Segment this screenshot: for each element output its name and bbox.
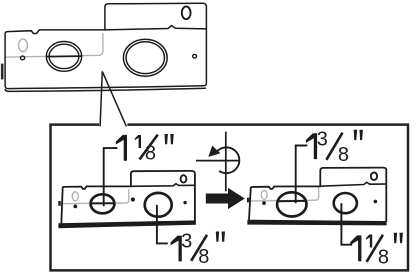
right mini bracket: bottom band — [247, 220, 386, 226]
label 2: 1-3/8 inch — [171, 230, 225, 267]
left mini bracket: bottom band — [58, 220, 196, 228]
left mini bracket: outline — [61, 171, 195, 225]
label 4: 1-1/8 inch — [350, 233, 403, 269]
top bracket: bend line with chevron — [105, 26, 206, 30]
callout box border (gap at top for triangle) — [51, 125, 409, 271]
leader line label 1 (1-1/8 left top) — [104, 148, 118, 206]
leader line label 2 (1-3/8 left bottom) — [157, 205, 168, 244]
label 3: 1-3/8 inch — [306, 128, 363, 166]
rotate icon: cross lines — [196, 132, 240, 192]
right mini bracket: gray oval — [261, 191, 267, 200]
svg-text:8: 8 — [145, 142, 156, 164]
top bracket: left end tab — [1, 64, 4, 80]
left mini bracket: small hole 1-1/8 — [91, 194, 115, 213]
right mini bracket: gray back line — [250, 187, 319, 201]
top bracket: bottom fold line — [5, 88, 206, 91]
leader line label 3 (1-3/8 right top) — [296, 146, 308, 204]
top bracket: outline — [5, 3, 206, 91]
right mini bracket: small hole 1-1/8 — [334, 193, 357, 213]
right mini bracket: chord through big hole — [277, 200, 306, 202]
left mini bracket: gray back line — [61, 189, 129, 204]
left mini bracket: chord through small hole — [91, 202, 115, 204]
right mini bracket: big hole 1-3/8 — [277, 192, 306, 216]
left mini bracket: left end tab — [58, 201, 61, 206]
right mini bracket: small oval top — [371, 172, 377, 180]
right mini bracket: left end tab — [247, 198, 250, 203]
left mini bracket: bend line with chevron — [131, 184, 195, 187]
left mini bracket: small oval top — [181, 175, 187, 182]
big flip arrow — [206, 188, 245, 209]
top bracket: left oval hole (double ring) — [21, 6, 197, 76]
top bracket: right oval hole (double ring) — [123, 39, 167, 76]
right mini bracket: bend line with chevron — [320, 182, 386, 186]
rotate icon: arc — [217, 147, 240, 173]
left mini bracket: gray oval — [72, 192, 78, 201]
leader line label 4 (1-1/8 right bottom) — [341, 203, 352, 245]
svg-text:8: 8 — [378, 246, 389, 268]
svg-text:8: 8 — [198, 246, 209, 268]
callout triangle legs — [100, 71, 126, 126]
left mini bracket: dots — [73, 205, 77, 209]
right mini bracket: outline — [249, 168, 386, 222]
top bracket: gray hidden back-plate line — [5, 33, 103, 57]
svg-text:3: 3 — [317, 128, 328, 150]
svg-text:8: 8 — [338, 144, 349, 166]
label 1: 1-1/8 inch — [116, 134, 174, 164]
rotate icon: arrowhead — [208, 146, 220, 157]
chord through left hole — [46, 55, 82, 57]
top bracket: gray keyhole oval — [19, 39, 28, 52]
left mini bracket: big hole 1-3/8 — [145, 193, 172, 217]
top bracket: small ring dots — [21, 56, 25, 60]
svg-text:3: 3 — [181, 230, 192, 252]
top bracket: small oval top-right — [182, 6, 191, 19]
right mini bracket: dots — [262, 201, 266, 205]
